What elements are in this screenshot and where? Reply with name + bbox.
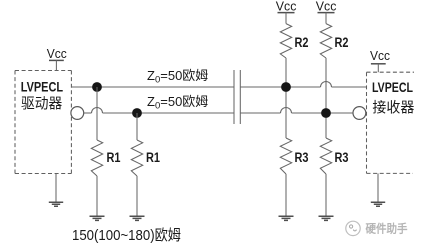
svg-text:硬件助手: 硬件助手	[366, 222, 408, 236]
wire: bottom trace from capacitor to hop at R2a leg	[240, 112, 280, 114]
driver label LVPECL	[21, 80, 63, 95]
wire: bottom trace from hop to capacitor	[103, 112, 235, 114]
wire: Vcc to R2b	[325, 13, 327, 24]
wire hop: bottom trace over R1 leg	[92, 108, 103, 113]
svg-text:LVPECL: LVPECL	[21, 80, 63, 95]
wire: R1a lower leg	[96, 176, 98, 216]
svg-text:R1: R1	[107, 150, 121, 165]
svg-text:Vcc: Vcc	[276, 0, 297, 14]
node: junction dot top trace / R2a R3a	[281, 82, 291, 92]
open circle: receiver inverted input	[353, 107, 366, 120]
label R2 (left)	[295, 35, 309, 50]
label R3 (left)	[295, 150, 309, 165]
wire: bottom trace from hop to receiver circle	[292, 112, 354, 114]
ground (R3 left)	[279, 216, 294, 220]
label R1 (left)	[107, 150, 121, 165]
ground (R1 left)	[90, 216, 105, 220]
svg-text:Vcc: Vcc	[47, 46, 67, 61]
capacitor C1/C2 right plate	[239, 70, 241, 124]
label R2 (right)	[335, 35, 349, 50]
ground (R3 right)	[319, 216, 334, 220]
svg-text:LVPECL: LVPECL	[372, 80, 413, 95]
wire hop: bottom trace over R2a/R3a leg	[281, 108, 292, 113]
node: junction dot top trace / R1a	[92, 82, 102, 92]
watermark logo circle	[346, 221, 360, 235]
receiver label LVPECL	[372, 80, 413, 95]
wire: top trace from driver to capacitor	[71, 86, 234, 88]
label 150(100~180) ohm	[72, 227, 181, 244]
ground (driver)	[49, 174, 63, 207]
wire: top trace from hop to receiver	[332, 86, 367, 88]
svg-text:Vcc: Vcc	[370, 48, 390, 63]
power Vcc (driver)	[47, 46, 67, 71]
svg-text:R1: R1	[146, 150, 160, 165]
receiver label 接收器	[372, 100, 414, 117]
power Vcc (R2 right)	[316, 0, 337, 14]
driver box U1 (LVPECL driver, dashed outline)	[15, 71, 71, 174]
wire: bottom trace from driver circle to hop	[84, 112, 92, 114]
watermark text 硬件助手	[366, 222, 408, 236]
wire hop: top trace over R2b leg	[321, 82, 332, 88]
power Vcc (receiver)	[370, 48, 390, 72]
node: junction dot bottom trace / R2b R3b	[321, 108, 331, 118]
wire: R1b lower leg	[136, 176, 138, 216]
svg-text:150(100~180)欧姆: 150(100~180)欧姆	[72, 227, 181, 244]
wire: R2b leg down through hop to bottom dot and R3b	[325, 58, 327, 138]
wire: R2a leg down through top dot to R3a	[285, 58, 287, 138]
wire: R1a upper leg	[96, 87, 98, 140]
node: junction dot bottom trace / R1b	[132, 108, 142, 118]
svg-text:驱动器: 驱动器	[21, 96, 63, 113]
resistor R1 (right, from bottom trace)	[131, 140, 142, 176]
receiver box U2 (LVPECL receiver, dashed outline open right)	[367, 72, 415, 173]
svg-text:R3: R3	[295, 150, 309, 165]
wire: Vcc to R2a	[285, 13, 287, 24]
wire: R3b lower leg	[325, 174, 327, 216]
wire: R1b upper leg	[136, 113, 138, 140]
resistor R1 (left, from top trace)	[91, 140, 102, 176]
resistor R3 (left)	[280, 138, 291, 174]
power Vcc (R2 left)	[276, 0, 297, 14]
svg-text:R3: R3	[335, 150, 349, 165]
svg-text:R2: R2	[295, 35, 309, 50]
label Z0=50 ohm (top trace)	[147, 68, 208, 86]
label Z0=50 ohm (bottom trace)	[147, 94, 208, 112]
open circle: driver inverted output	[71, 107, 84, 120]
label R1 (right)	[146, 150, 160, 165]
resistor R2 (right)	[320, 24, 331, 58]
svg-text:R2: R2	[335, 35, 349, 50]
wire: R3a lower leg	[285, 174, 287, 216]
resistor R3 (right)	[320, 138, 331, 174]
resistor R2 (left)	[280, 24, 291, 58]
label R3 (right)	[335, 150, 349, 165]
capacitor C1/C2 left plate	[233, 70, 235, 124]
svg-text:Vcc: Vcc	[316, 0, 337, 14]
svg-text:接收器: 接收器	[372, 100, 414, 117]
driver label 驱动器	[21, 96, 63, 113]
ground (R1 right)	[130, 216, 145, 220]
wire: top trace from capacitor to hop at R2b leg	[240, 86, 320, 88]
ground (receiver)	[371, 173, 385, 206]
